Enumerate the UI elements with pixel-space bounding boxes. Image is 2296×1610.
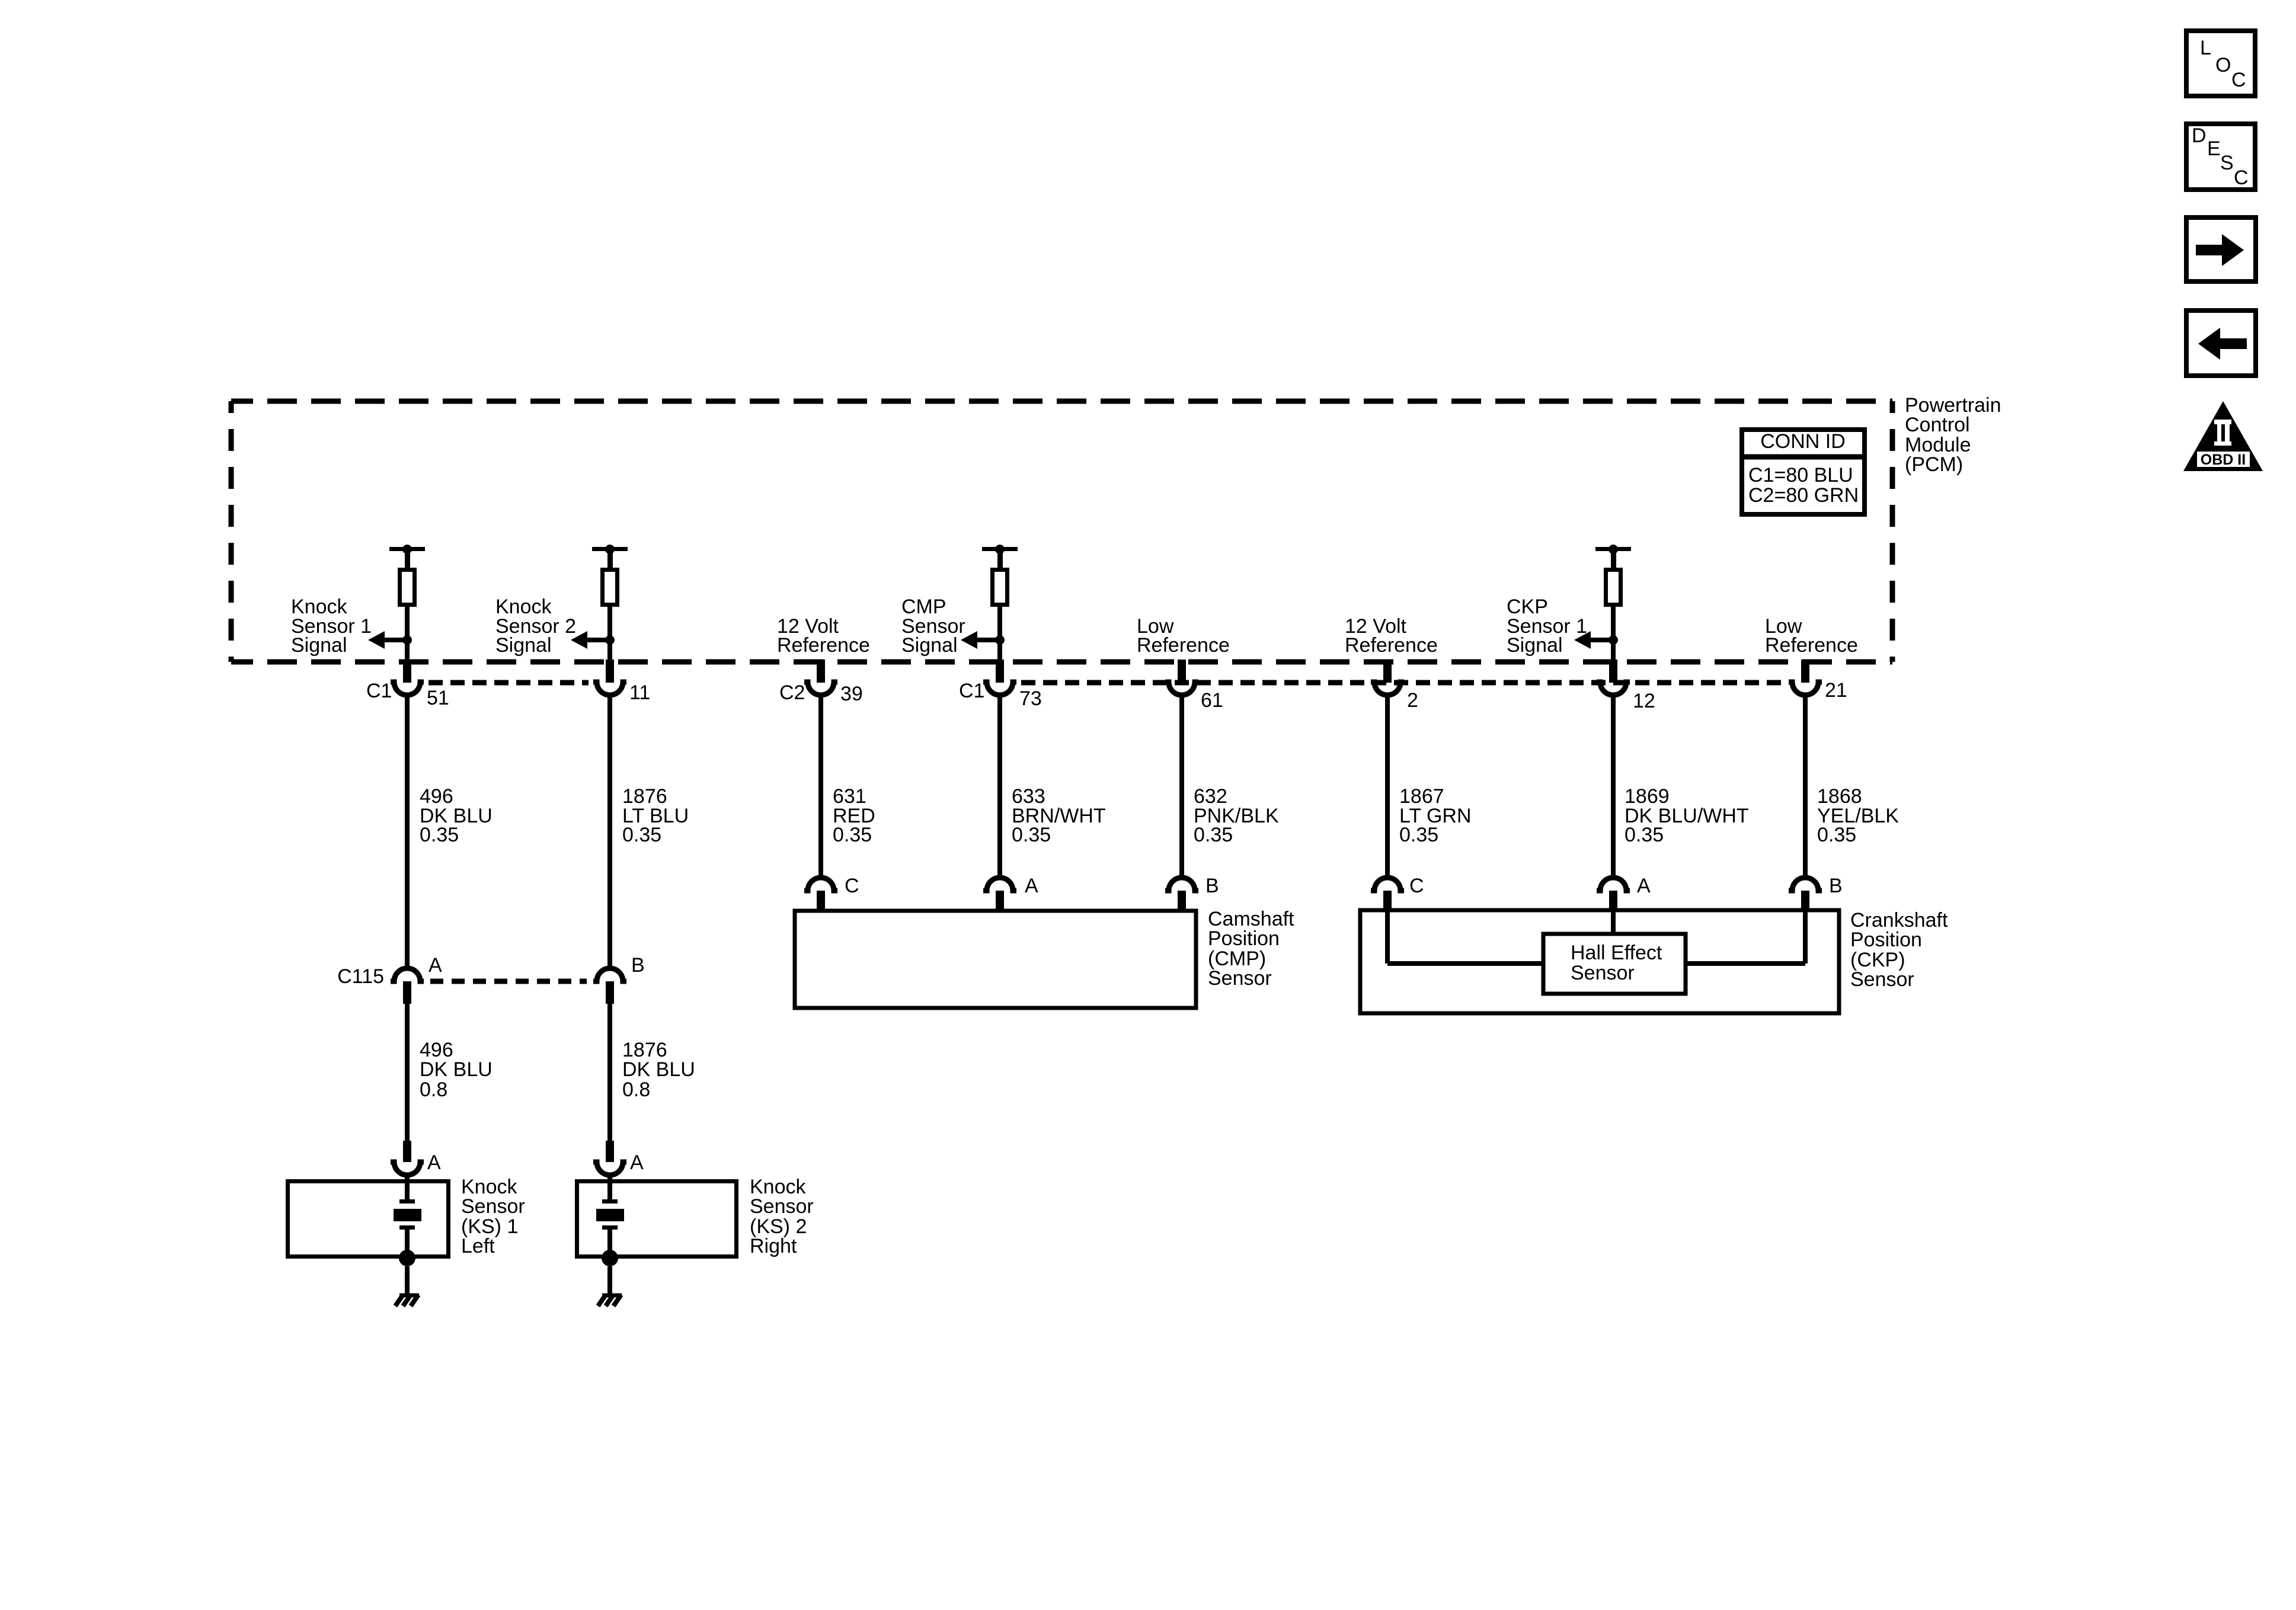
wire: KS2 junction to ground xyxy=(607,1266,612,1295)
wire: KS1 connector to piezo element xyxy=(405,1175,410,1201)
pin number 61 xyxy=(1201,689,1223,712)
label: CKP Sensor 1 Signal xyxy=(1507,596,1587,657)
wire label: 633 BRN/WHT 0.35 xyxy=(1012,785,1106,846)
svg-text:0.35: 0.35 xyxy=(1625,824,1664,846)
svg-text:0.35: 0.35 xyxy=(833,824,872,846)
connector C1 pin 11 cup xyxy=(593,682,626,695)
label: C2 xyxy=(779,681,805,704)
label: pin B (CKP) xyxy=(1829,875,1843,897)
svg-text:Sensor: Sensor xyxy=(1208,967,1272,990)
svg-text:A: A xyxy=(427,1151,441,1174)
wire 1868 YEL/BLK 0.35 (pin 21 to CKP B) xyxy=(1803,695,1808,878)
wire 1869 DK BLU/WHT 0.35 (pin 12 to CKP A) xyxy=(1611,695,1616,878)
ground symbol KS1 xyxy=(395,1295,419,1306)
wire 632 PNK/BLK 0.35 (pin 61 to CMP B) xyxy=(1179,695,1184,878)
wire: R2 to PCM connector xyxy=(607,607,612,662)
svg-text:Control: Control xyxy=(1905,414,1970,436)
resistor R3 (CMP signal pull-up, inside PCM) xyxy=(993,570,1008,605)
svg-text:A: A xyxy=(630,1151,644,1174)
label: pin A (CKP) xyxy=(1637,875,1651,897)
resistor R1 (KS1 bias, inside PCM) xyxy=(400,570,415,605)
connector C2 pin 39 stub xyxy=(817,660,825,683)
pin number 51 xyxy=(427,687,449,709)
svg-text:0.8: 0.8 xyxy=(622,1078,650,1101)
label: CMP Sensor Signal xyxy=(901,596,965,657)
svg-text:Left: Left xyxy=(461,1235,495,1257)
pin number 12 xyxy=(1633,690,1655,712)
resistor R2 (KS2 bias, inside PCM) xyxy=(603,570,618,605)
wire label: 1869 DK BLU/WHT 0.35 xyxy=(1625,785,1749,846)
svg-text:0.35: 0.35 xyxy=(420,824,459,846)
pin number 2 xyxy=(1407,689,1418,712)
wire 496 DK BLU 0.35 (pin 51 to C115 A) xyxy=(405,695,410,968)
label: pin B (CMP) xyxy=(1205,875,1219,897)
label: C115 xyxy=(337,965,384,988)
connector KS1 pin A stub xyxy=(403,1141,411,1162)
label: Hall Effect Sensor xyxy=(1571,942,1662,984)
inline connector dashed link C1 (51 to 11) xyxy=(428,680,589,686)
label: pin A (C115) xyxy=(428,954,442,977)
wire: CKP pin C to Hall sensor (horizontal) xyxy=(1387,961,1543,966)
icon: OBD II triangle xyxy=(2183,401,2263,471)
connector CMP pin A stub xyxy=(996,891,1004,911)
icon: DESC box xyxy=(2186,124,2255,190)
svg-text:(PCM): (PCM) xyxy=(1905,453,1963,476)
junction dot KS1 case xyxy=(399,1250,415,1266)
wire: CKP pin A to Hall sensor xyxy=(1611,910,1616,934)
label: pin C (CKP) xyxy=(1409,875,1424,897)
junction dot KS2 case xyxy=(602,1250,618,1266)
wire: piezo to case junction KS1 xyxy=(405,1230,410,1251)
inline connector dashed link C115 (A to B) xyxy=(430,979,587,984)
connector C1 pin 12 cup xyxy=(1597,682,1630,695)
piezo element KS2 xyxy=(596,1199,624,1230)
wire label: 496 DK BLU 0.35 xyxy=(420,785,493,846)
wire: R4 to PCM connector xyxy=(1611,607,1616,662)
svg-text:A: A xyxy=(1025,875,1038,897)
svg-text:0.35: 0.35 xyxy=(1194,824,1233,846)
svg-text:A: A xyxy=(428,954,442,977)
connector C115 pin B dome xyxy=(593,968,626,981)
connector C1 pin 21 stub xyxy=(1801,660,1809,683)
svg-text:Reference: Reference xyxy=(777,634,870,657)
svg-text:DK BLU: DK BLU xyxy=(420,1058,493,1081)
wire 1876 LT BLU 0.35 (pin 11 to C115 B) xyxy=(607,695,612,968)
wire label: 1876 LT BLU 0.35 xyxy=(622,785,689,846)
svg-text:Position: Position xyxy=(1850,929,1922,951)
pin number 11 xyxy=(629,681,650,704)
connector CKP pin B dome xyxy=(1789,878,1822,891)
connector C1 pin 11 stub xyxy=(606,660,614,683)
svg-text:L: L xyxy=(2200,37,2211,59)
Camshaft Position (CMP) Sensor box xyxy=(795,911,1196,1008)
label: Low Reference (CKP) xyxy=(1765,615,1858,657)
label: Crankshaft Position (CKP) Sensor xyxy=(1850,909,1948,991)
Crankshaft Position (CKP) Sensor box xyxy=(1360,910,1839,1013)
svg-text:B: B xyxy=(1205,875,1219,897)
label: C1 xyxy=(366,680,392,702)
wire 1867 LT GRN 0.35 (pin 2 to CKP C) xyxy=(1385,695,1390,878)
connector C1 pin 12 stub xyxy=(1609,660,1617,683)
svg-text:Signal: Signal xyxy=(495,634,552,657)
icon: forward arrow box xyxy=(2186,217,2256,281)
wire: CKP pin C to Hall sensor (vertical) xyxy=(1385,910,1390,964)
svg-text:C1: C1 xyxy=(366,680,392,702)
svg-text:C2=80 GRN: C2=80 GRN xyxy=(1748,484,1859,507)
svg-text:61: 61 xyxy=(1201,689,1223,712)
connector CKP pin C dome xyxy=(1371,878,1404,891)
ground symbol KS2 xyxy=(598,1295,622,1306)
wire 1876 DK BLU 0.8 (C115 to KS2) xyxy=(607,1004,612,1144)
signal arrow: Knock Sensor 2 Signal with junction xyxy=(571,631,615,649)
svg-text:0.35: 0.35 xyxy=(1399,824,1438,846)
signal arrow: CKP Sensor 1 Signal with junction xyxy=(1574,631,1618,649)
wire: R3 to PCM connector xyxy=(997,607,1002,662)
label: pin C (CMP) xyxy=(845,875,859,897)
wire: piezo to case junction KS2 xyxy=(607,1230,612,1251)
svg-text:73: 73 xyxy=(1019,687,1042,710)
label: Knock Sensor (KS) 2 Right xyxy=(750,1176,814,1257)
connector C115 pin B stub xyxy=(606,981,614,1004)
label: Knock Sensor 2 Signal xyxy=(495,596,576,657)
svg-text:Sensor: Sensor xyxy=(1571,962,1635,984)
connector CKP pin A dome xyxy=(1597,878,1630,891)
icon: back arrow box xyxy=(2186,311,2256,376)
label: Camshaft Position (CMP) Sensor xyxy=(1208,908,1294,990)
node: CKP signal continuation T-bar xyxy=(1595,545,1631,569)
Knock Sensor (KS) 2 box xyxy=(577,1182,737,1257)
label: pin A (KS1) xyxy=(427,1151,441,1174)
svg-text:2: 2 xyxy=(1407,689,1418,712)
svg-text:0.35: 0.35 xyxy=(1012,824,1051,846)
label: pin A (CMP) xyxy=(1025,875,1038,897)
connector CKP pin C stub xyxy=(1383,891,1392,910)
node: KS2 signal continuation T-bar xyxy=(592,545,628,569)
connector C1 pin 2 cup xyxy=(1371,682,1404,695)
label: Powertrain Control Module (PCM) xyxy=(1905,394,2001,476)
connector C1 pin 51 cup xyxy=(391,682,424,695)
connector CMP pin B stub xyxy=(1178,891,1186,911)
svg-text:E: E xyxy=(2207,137,2221,160)
label: Knock Sensor 1 Signal xyxy=(291,596,372,657)
inline connector dashed link C1 (73 to 21) xyxy=(1021,680,1784,686)
signal arrow: CMP Sensor Signal with junction xyxy=(961,631,1005,649)
connector C1 pin 51 stub xyxy=(403,660,411,683)
svg-text:Signal: Signal xyxy=(1507,634,1563,657)
connector C1 pin 61 cup xyxy=(1165,682,1198,695)
svg-text:C2: C2 xyxy=(779,681,805,704)
connector C1 pin 2 stub xyxy=(1383,660,1392,683)
svg-text:D: D xyxy=(2192,124,2207,147)
svg-text:C1=80 BLU: C1=80 BLU xyxy=(1748,464,1853,486)
wire: KS2 connector to piezo element xyxy=(607,1175,612,1201)
connector C1 pin 21 cup xyxy=(1789,682,1822,695)
connector C1 pin 73 cup xyxy=(983,682,1016,695)
connector C115 pin A stub xyxy=(403,981,411,1004)
connector KS1 pin A cup xyxy=(391,1162,424,1175)
connector C1 pin 73 stub xyxy=(996,660,1004,683)
svg-text:O: O xyxy=(2215,54,2231,76)
wire label: 1876 DK BLU 0.8 xyxy=(622,1039,695,1101)
signal arrow: Knock Sensor 1 Signal with junction xyxy=(368,631,412,649)
wire label: 496 DK BLU 0.8 xyxy=(420,1039,493,1101)
svg-text:Right: Right xyxy=(750,1235,797,1257)
svg-text:0.35: 0.35 xyxy=(622,824,661,846)
Hall Effect Sensor box xyxy=(1543,934,1686,994)
svg-text:C115: C115 xyxy=(337,965,384,988)
pin number 21 xyxy=(1825,679,1847,702)
svg-text:0.35: 0.35 xyxy=(1817,824,1856,846)
label: 12 Volt Reference (CKP) xyxy=(1345,615,1438,657)
wire label: 632 PNK/BLK 0.35 xyxy=(1194,785,1279,846)
wire 496 DK BLU 0.8 (C115 to KS1) xyxy=(405,1004,410,1144)
wire 633 BRN/WHT 0.35 (pin 73 to CMP A) xyxy=(997,695,1002,878)
connector CKP pin B stub xyxy=(1801,891,1809,910)
svg-text:Reference: Reference xyxy=(1765,634,1858,657)
svg-text:Signal: Signal xyxy=(901,634,958,657)
label: Knock Sensor (KS) 1 Left xyxy=(461,1176,525,1257)
svg-text:Position: Position xyxy=(1208,927,1280,950)
svg-text:Sensor: Sensor xyxy=(750,1195,814,1218)
svg-text:Reference: Reference xyxy=(1345,634,1438,657)
connector CMP pin B dome xyxy=(1165,878,1198,891)
svg-text:51: 51 xyxy=(427,687,449,709)
svg-text:C: C xyxy=(845,875,859,897)
svg-text:C1: C1 xyxy=(959,680,984,702)
svg-text:Hall Effect: Hall Effect xyxy=(1571,942,1662,964)
svg-text:Sensor: Sensor xyxy=(1850,968,1914,991)
svg-text:21: 21 xyxy=(1825,679,1847,702)
label: 12 Volt Reference (CMP) xyxy=(777,615,870,657)
svg-text:Reference: Reference xyxy=(1137,634,1230,657)
resistor R4 (CKP signal pull-up, inside PCM) xyxy=(1606,570,1621,605)
label: C1 (pin 73) xyxy=(959,680,984,702)
wire label: 1867 LT GRN 0.35 xyxy=(1399,785,1472,846)
label: pin B (C115) xyxy=(631,954,645,977)
wire: KS1 junction to ground xyxy=(405,1266,410,1295)
svg-text:39: 39 xyxy=(840,683,863,705)
pin number 39 xyxy=(840,683,863,705)
connector C115 pin A dome xyxy=(391,968,424,981)
connector C1 pin 61 stub xyxy=(1178,660,1186,683)
CONN ID table box xyxy=(1742,430,1865,514)
svg-text:CONN ID: CONN ID xyxy=(1760,430,1846,453)
node: CMP signal continuation T-bar xyxy=(982,545,1018,569)
svg-text:Signal: Signal xyxy=(291,634,347,657)
svg-text:C: C xyxy=(2234,167,2249,189)
wire: CKP pin B to Hall sensor (horizontal) xyxy=(1686,961,1805,966)
connector CMP pin A dome xyxy=(983,878,1016,891)
node: KS1 signal continuation T-bar xyxy=(389,545,425,569)
svg-text:0.8: 0.8 xyxy=(420,1078,447,1101)
svg-text:12: 12 xyxy=(1633,690,1655,712)
connector CMP pin C dome xyxy=(804,878,837,891)
svg-text:B: B xyxy=(1829,875,1843,897)
pin number 73 xyxy=(1019,687,1042,710)
svg-text:DK BLU: DK BLU xyxy=(622,1058,695,1081)
connector C2 pin 39 cup xyxy=(804,682,837,695)
svg-text:A: A xyxy=(1637,875,1651,897)
svg-text:11: 11 xyxy=(629,681,650,704)
svg-text:C: C xyxy=(2231,69,2246,91)
svg-text:S: S xyxy=(2220,152,2234,174)
wire: CKP pin B to Hall sensor (vertical) xyxy=(1803,910,1808,964)
Knock Sensor (KS) 1 box xyxy=(288,1182,449,1257)
connector KS2 pin A stub xyxy=(606,1141,614,1162)
piezo element KS1 xyxy=(394,1199,421,1230)
icon: LOC box xyxy=(2186,31,2255,96)
label: Low Reference (CMP) xyxy=(1137,615,1230,657)
connector CKP pin A stub xyxy=(1609,891,1617,910)
connector CMP pin C stub xyxy=(817,891,825,911)
wire label: 631 RED 0.35 xyxy=(833,785,875,846)
svg-text:B: B xyxy=(631,954,645,977)
wire: R1 to PCM connector xyxy=(405,607,410,662)
PCM module dashed outline box xyxy=(231,401,1892,662)
svg-text:C: C xyxy=(1409,875,1424,897)
wire 631 RED 0.35 (pin 39 to CMP C) xyxy=(818,695,823,878)
label: pin A (KS2) xyxy=(630,1151,644,1174)
wire label: 1868 YEL/BLK 0.35 xyxy=(1817,785,1899,846)
svg-text:Sensor: Sensor xyxy=(461,1195,525,1218)
svg-text:OBD II: OBD II xyxy=(2201,452,2246,468)
connector KS2 pin A cup xyxy=(593,1162,626,1175)
